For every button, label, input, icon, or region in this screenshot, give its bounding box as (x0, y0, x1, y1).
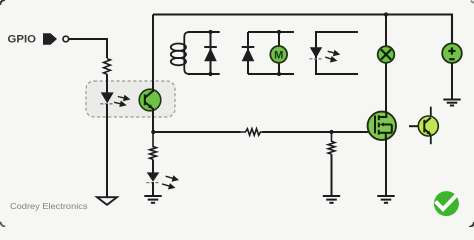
corner artifact bottom-left (1, 222, 6, 227)
subcircuit2 rails (248, 32, 294, 74)
svg-text:Codrey Electronics: Codrey Electronics (10, 201, 88, 211)
opto emission arrows (114, 96, 129, 106)
svg-text:M: M (274, 49, 283, 61)
LED D4 (147, 172, 160, 181)
node A junction (151, 130, 155, 134)
top supply rail (153, 15, 452, 44)
LED D5 (310, 47, 322, 58)
svg-text:GPIO: GPIO (8, 34, 37, 46)
motor branch wire (278, 32, 280, 74)
node B junction (329, 130, 333, 134)
wire emitter down to node A (152, 108, 154, 132)
junction on rail (384, 12, 388, 16)
lamp branch wire (385, 15, 387, 113)
junction dots D2 (208, 30, 212, 34)
resistor R4 (LED series) (150, 132, 157, 159)
resistor R2 (horizontal) (241, 129, 262, 136)
wire phototransistor collector up to top rail (152, 15, 154, 93)
resistor R3 (pulldown) (328, 132, 335, 154)
MOSFET Q1 (368, 112, 396, 140)
gate row wire right (262, 131, 376, 133)
subcircuit1: relay coil L1 (171, 32, 189, 74)
opto phototransistor (139, 89, 161, 111)
lamp X1 (378, 46, 395, 63)
ground G4 (377, 196, 394, 203)
wire opto LED down to ground (106, 104, 108, 197)
motor M1 (270, 46, 287, 63)
LED D5 emission arrows (325, 51, 339, 62)
gate row wire left (153, 131, 241, 133)
subcircuit1 rails (188, 32, 220, 74)
ground G1 (triangle, left) (97, 197, 117, 205)
diode D3 (247, 32, 249, 74)
resistor R1 (vertical) (104, 59, 111, 75)
check badge (434, 191, 459, 216)
wire LED D4 to ground (152, 182, 154, 196)
subcircuit3 rails (316, 32, 358, 74)
optocoupler U1 dashed box (86, 81, 175, 117)
ground G5 (443, 100, 460, 106)
GPIO terminal (open circle) (63, 36, 69, 42)
wire R3 to ground (331, 154, 333, 196)
wire GPIO to R1 (69, 39, 107, 58)
junction dots motor (277, 30, 281, 34)
LED D4 emission arrows (162, 176, 178, 188)
corner artifact top-left (0, 0, 5, 5)
battery B1 (442, 43, 462, 63)
corner artifact top-right (471, 1, 474, 3)
opto LED D1 (101, 92, 114, 103)
ground G3 (323, 196, 340, 203)
flyback diode D2 (210, 32, 212, 74)
battery wire to ground (451, 63, 453, 100)
wire R4 to LED D4 (152, 159, 154, 172)
corner artifact bottom-right (469, 222, 474, 227)
ground G2 (144, 196, 161, 203)
wire R1 to opto LED (106, 74, 108, 93)
transistor Q2 (BJT) (409, 125, 424, 127)
GPIO tag pentagon (43, 33, 57, 45)
MOSFET source wire to ground (385, 139, 387, 196)
